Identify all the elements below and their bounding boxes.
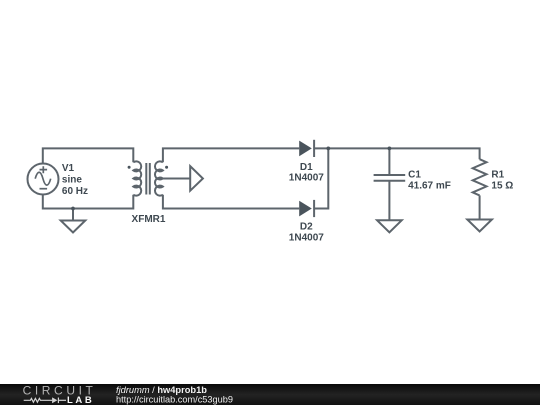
svg-text:C1: C1 <box>408 170 421 181</box>
svg-text:sine: sine <box>62 174 82 185</box>
svg-text:D2: D2 <box>300 222 313 233</box>
svg-text:15 Ω: 15 Ω <box>491 181 513 192</box>
svg-text:LAB: LAB <box>67 395 94 405</box>
svg-text:fjdrumm / hw4prob1b: fjdrumm / hw4prob1b <box>116 385 207 395</box>
svg-text:R1: R1 <box>491 170 504 181</box>
svg-text:D1: D1 <box>300 162 313 173</box>
svg-text:V1: V1 <box>62 163 75 174</box>
svg-text:1N4007: 1N4007 <box>289 233 324 244</box>
svg-text:http://circuitlab.com/c53gub9: http://circuitlab.com/c53gub9 <box>116 395 233 405</box>
svg-text:60 Hz: 60 Hz <box>62 186 88 197</box>
svg-text:41.67 mF: 41.67 mF <box>408 181 451 192</box>
svg-text:XFMR1: XFMR1 <box>132 214 166 225</box>
svg-text:1N4007: 1N4007 <box>289 173 324 184</box>
